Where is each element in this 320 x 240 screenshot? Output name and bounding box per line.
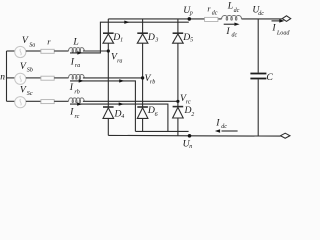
load connector diamond top <box>282 16 290 22</box>
wire: current path line from phase a up to rail <box>70 22 189 53</box>
wire: inner negative path line to Un <box>135 130 188 132</box>
diode D2 cathode bar <box>173 106 184 108</box>
diode D5 triangle <box>173 34 184 43</box>
diode D5 cathode bar <box>173 32 184 34</box>
arrowhead current path phase c (Irc) <box>77 102 82 105</box>
svg-text:3: 3 <box>154 38 158 44</box>
junction dot node Un <box>188 134 192 138</box>
wire: phase c stub from n bus to source Vsc <box>7 100 15 102</box>
diode D1 triangle <box>103 34 114 43</box>
wire: bridge column 3 (D5/D2 leg) <box>177 19 179 136</box>
capacitor C bottom plate <box>250 78 266 80</box>
svg-text:L: L <box>72 37 78 48</box>
load connector diamond bottom <box>281 133 290 138</box>
wire: phase b stub from n bus to source Vsb <box>7 77 15 79</box>
svg-text:I: I <box>69 82 74 93</box>
junction dot node Vrb <box>141 76 144 79</box>
wire: phase a from resistor to inductor L <box>54 50 68 52</box>
arrowhead phase b mid path <box>119 79 124 82</box>
diode D2 triangle <box>173 107 184 118</box>
capacitor C branch lower wire <box>257 79 259 136</box>
svg-text:5: 5 <box>190 38 193 44</box>
arrowhead phase c mid path <box>119 102 124 105</box>
svg-text:I: I <box>225 26 230 37</box>
inductor phase c coil <box>69 98 85 103</box>
svg-text:p: p <box>189 11 193 17</box>
resistor r phase b body <box>41 76 54 80</box>
inductor phase b coil <box>69 75 85 80</box>
svg-text:C: C <box>266 72 273 83</box>
source VSa circle <box>15 46 26 57</box>
arrowhead Idc bottom pointing left <box>215 129 220 132</box>
svg-text:I: I <box>271 23 276 34</box>
arrowhead Idc top <box>234 23 239 26</box>
wire: phase b from inductor to bridge node Vrb <box>83 77 143 79</box>
svg-text:rb: rb <box>74 89 79 95</box>
diode D6 cathode bar <box>137 106 148 108</box>
diode D3 cathode bar <box>137 32 148 34</box>
svg-text:I: I <box>215 118 220 129</box>
svg-text:Sa: Sa <box>29 43 35 49</box>
junction dot node Vrc <box>176 100 179 103</box>
svg-text:dc: dc <box>212 10 218 16</box>
wire: phase b from resistor to inductor <box>54 77 68 79</box>
resistor r phase c body <box>41 100 54 104</box>
wire: bridge column 2 (D3/D6 leg) <box>142 19 144 131</box>
capacitor C top plate <box>250 73 266 75</box>
wire: phase a from source to resistor r <box>26 50 41 52</box>
svg-text:Sc: Sc <box>27 91 33 97</box>
junction dot node Vra <box>107 49 110 52</box>
svg-text:Sb: Sb <box>27 68 33 74</box>
svg-text:ra: ra <box>117 58 122 64</box>
source VSb sine symbol <box>20 76 22 82</box>
arrow Idc top (tail) <box>224 24 235 25</box>
svg-text:rc: rc <box>75 114 80 120</box>
wire: left neutral vertical bus at node n <box>6 51 8 101</box>
svg-text:ra: ra <box>75 63 80 69</box>
wire: phase a from inductor to bridge node Vra <box>83 50 108 52</box>
arrow Idc bottom (tail) <box>222 131 238 132</box>
svg-text:dc: dc <box>232 32 238 38</box>
source VSc circle <box>15 97 26 108</box>
svg-text:r: r <box>47 37 51 47</box>
svg-text:n: n <box>189 144 192 150</box>
arrowhead on rail B (positive current path) <box>124 21 129 24</box>
wire: top positive rail Up <box>108 18 282 20</box>
svg-text:D: D <box>112 32 120 43</box>
resistor rdc body <box>205 17 218 21</box>
diode D1 cathode bar <box>103 32 114 34</box>
inductor Ldc coil <box>222 15 242 20</box>
junction dot node Up <box>188 17 192 21</box>
wire: current path from phase b down to negative bus <box>70 81 135 131</box>
svg-text:r: r <box>207 5 211 14</box>
diode D4 cathode bar <box>103 106 114 108</box>
svg-text:dc: dc <box>234 8 240 14</box>
capacitor C branch upper wire <box>257 19 259 73</box>
svg-text:2: 2 <box>191 112 194 118</box>
wire: phase c from source to resistor <box>26 100 41 102</box>
arrow ILoad (tail) <box>272 20 281 21</box>
wire: bridge column 1 (D1/D4 leg) <box>107 19 109 135</box>
svg-text:L: L <box>227 1 233 12</box>
arrowhead current path phase a (Ira) <box>77 51 82 54</box>
source VSb circle <box>15 73 26 84</box>
svg-text:Load: Load <box>276 30 290 36</box>
svg-text:1: 1 <box>120 37 123 43</box>
wire: bottom negative rail <box>108 134 280 137</box>
source VSa sine symbol <box>20 49 22 55</box>
arrowhead current path phase b (Irb) <box>79 79 84 82</box>
svg-text:6: 6 <box>155 112 158 118</box>
svg-text:D: D <box>147 32 155 43</box>
wire: phase b from source to resistor <box>26 77 41 79</box>
wire: phase c from resistor to inductor <box>54 100 68 102</box>
resistor r phase a body <box>41 49 54 53</box>
svg-text:dc: dc <box>221 124 227 130</box>
svg-text:4: 4 <box>121 113 124 120</box>
inductor L phase a coil <box>69 48 85 53</box>
diode D4 triangle <box>103 108 114 119</box>
wire: current path from phase c down to negative bus <box>70 104 168 131</box>
diode D6 triangle <box>137 108 148 119</box>
arrowhead ILoad <box>279 19 284 22</box>
svg-text:n: n <box>0 72 5 82</box>
svg-text:V: V <box>22 35 29 46</box>
svg-text:D: D <box>182 32 190 43</box>
source VSc sine symbol <box>20 99 22 105</box>
svg-text:dc: dc <box>258 11 264 17</box>
svg-text:rb: rb <box>150 80 155 86</box>
wire: phase a stub from n bus to source Vsa <box>7 50 15 52</box>
svg-text:I: I <box>69 107 74 118</box>
wire: phase c from inductor to bridge node Vrc <box>83 100 178 102</box>
diode D3 triangle <box>137 34 148 43</box>
